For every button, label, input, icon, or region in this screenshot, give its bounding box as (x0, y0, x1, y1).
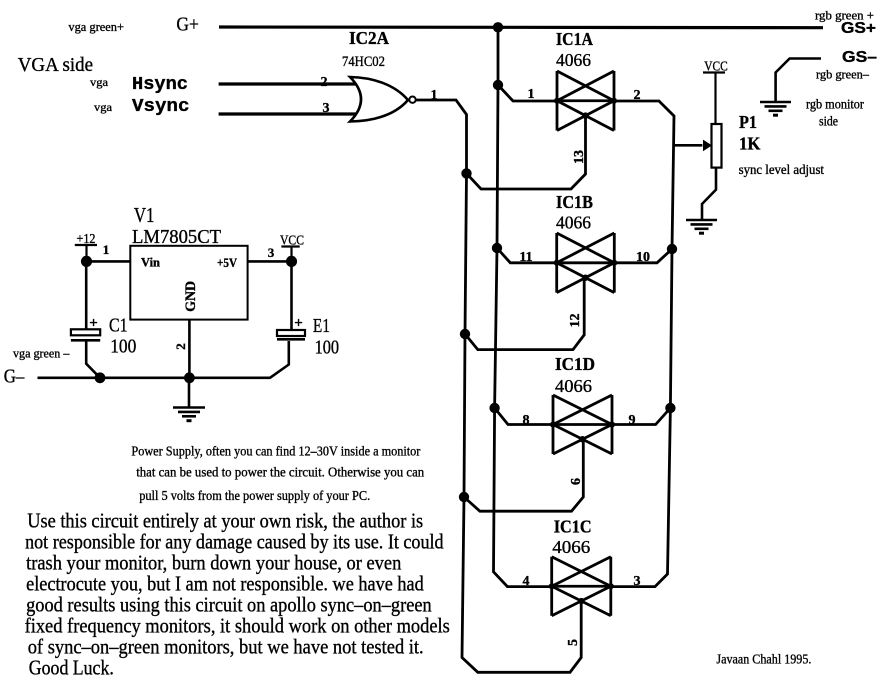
svg-text:vga green –: vga green – (13, 346, 70, 361)
wire G+ to GS+ top line (219, 25, 823, 29)
svg-text:IC1C: IC1C (554, 517, 592, 537)
svg-text:4: 4 (523, 574, 530, 589)
svg-text:VGA side: VGA side (18, 54, 93, 76)
svg-text:1K: 1K (739, 134, 761, 154)
wire V1 GND pin 2 (188, 320, 191, 407)
analog switch IC1C (4066 bowtie) (549, 557, 614, 616)
wire G+ vertical rail (494, 27, 552, 587)
svg-text:VCC: VCC (280, 234, 304, 249)
output bubble (409, 97, 415, 103)
junction dot pin1 V1 (81, 256, 92, 267)
svg-text:11: 11 (519, 250, 532, 265)
svg-text:2: 2 (321, 75, 328, 90)
svg-text:sync level adjust: sync level adjust (739, 162, 825, 177)
junction dot pin13 junction (461, 168, 471, 178)
wire to IC1B pin 12 (465, 278, 584, 350)
svg-text:10: 10 (636, 250, 650, 265)
analog switch IC1B (4066 bowtie) (554, 233, 618, 293)
svg-text:C1: C1 (109, 314, 128, 336)
wire P1 bottom to ground (702, 168, 716, 219)
wire IC2A output / control rail (416, 100, 581, 672)
svg-text:IC1A: IC1A (556, 29, 593, 49)
wire to IC1A pin 13 (467, 115, 586, 189)
svg-text:100: 100 (315, 338, 340, 359)
junction dot pin12 junction (460, 329, 470, 339)
svg-text:Good Luck.: Good Luck. (29, 656, 114, 680)
svg-text:side: side (819, 114, 838, 129)
ground symbol (GS- ground) (760, 102, 791, 115)
svg-text:IC1D: IC1D (555, 354, 595, 374)
svg-text:13: 13 (572, 150, 587, 164)
svg-text:+: + (294, 316, 303, 332)
svg-text:E1: E1 (313, 316, 330, 337)
junction dot pin9 junction (665, 403, 675, 413)
junction dot IC1B pin11 branch (492, 243, 502, 253)
svg-text:4066: 4066 (556, 213, 591, 233)
P1 wiper arrow (674, 144, 702, 147)
svg-text:+5V: +5V (217, 255, 238, 270)
svg-text:12: 12 (568, 314, 583, 328)
svg-text:1: 1 (103, 242, 110, 257)
svg-text:that can be used to power the: that can be used to power the circuit. O… (136, 466, 424, 481)
analog switch IC1A (4066 bowtie) (554, 71, 617, 131)
svg-text:9: 9 (629, 413, 636, 428)
svg-text:3: 3 (634, 574, 641, 589)
svg-text:+: + (89, 316, 98, 332)
svg-text:100: 100 (110, 337, 136, 358)
+12 supply symbol (75, 245, 97, 261)
svg-text:G+: G+ (176, 14, 199, 36)
wire to IC1A pin 1 (498, 85, 557, 101)
svg-text:6: 6 (569, 478, 584, 485)
junction dot G+ rail junction (493, 22, 503, 32)
svg-text:GS–: GS– (842, 49, 877, 66)
svg-text:vga: vga (94, 100, 113, 114)
svg-text:8: 8 (523, 413, 530, 428)
svg-text:GND: GND (183, 281, 199, 312)
capacitor E1 (290, 261, 293, 329)
wire GS- to ground (776, 59, 821, 102)
capacitor C1 (85, 261, 88, 329)
wire IC1D pin 9 (612, 408, 670, 425)
svg-text:rgb green–: rgb green– (816, 67, 869, 82)
wire Hsync input (219, 82, 357, 85)
svg-text:1: 1 (431, 88, 438, 103)
junction dot IC1A pin1 branch (493, 80, 503, 90)
ground symbol (below P1) (686, 220, 717, 233)
svg-text:4066: 4066 (555, 376, 592, 396)
svg-text:Vin: Vin (141, 255, 161, 270)
VCC power symbol above P1 (703, 73, 725, 125)
svg-text:Vsync: Vsync (132, 97, 190, 117)
svg-text:P1: P1 (739, 112, 757, 132)
svg-text:2: 2 (634, 88, 641, 103)
wire to IC1D pin 8 (495, 408, 553, 425)
wire Vsync input (219, 112, 357, 115)
junction dot G- / C1 junction (95, 372, 106, 383)
svg-text:4066: 4066 (556, 50, 591, 70)
svg-text:vga: vga (90, 75, 109, 89)
svg-text:LM7805CT: LM7805CT (132, 226, 221, 248)
svg-text:+12: +12 (77, 232, 96, 247)
wire to IC1B pin 11 (497, 248, 557, 263)
svg-text:IC1B: IC1B (556, 192, 593, 212)
svg-text:3: 3 (323, 101, 330, 116)
svg-text:2: 2 (173, 343, 188, 350)
wire IC1A pin 2 to output rail (611, 101, 674, 587)
junction dot GND junction (184, 372, 195, 383)
svg-text:IC2A: IC2A (349, 28, 389, 48)
analog switch IC1D (4066 bowtie) (550, 395, 615, 454)
svg-text:Hsync: Hsync (132, 75, 188, 95)
ground symbol (main ground) (173, 408, 205, 421)
wire G- bottom rail (38, 341, 289, 378)
junction dot IC1D pin8 branch (489, 403, 499, 413)
svg-text:V1: V1 (134, 203, 155, 227)
svg-text:GS+: GS+ (841, 20, 876, 37)
svg-text:vga green+: vga green+ (68, 19, 124, 34)
junction dot pin6 junction (459, 492, 469, 502)
svg-text:Javaan Chahl 1995.: Javaan Chahl 1995. (716, 653, 811, 668)
svg-text:rgb monitor: rgb monitor (806, 97, 864, 112)
gate IC2A 74HC02 NOR gate (350, 77, 416, 122)
svg-text:Power Supply, often you can fi: Power Supply, often you can find 12–30V … (131, 445, 420, 460)
wire pin 3 of V1 (248, 260, 292, 263)
VCC power symbol at V1 pin 3 (281, 247, 299, 262)
svg-text:VCC: VCC (704, 60, 728, 75)
wire IC1B pin 10 (614, 249, 672, 263)
potentiometer P1 body (712, 124, 722, 168)
svg-text:1: 1 (528, 87, 535, 102)
junction dot pin10 junction (667, 244, 677, 254)
svg-text:3: 3 (268, 245, 275, 260)
svg-text:pull 5 volts from the power su: pull 5 volts from the power supply of yo… (139, 489, 370, 504)
regulator V1 LM7805CT box (130, 246, 247, 320)
junction dot pin3 V1 (286, 256, 297, 267)
wire pin 1 of V1 (87, 260, 131, 263)
svg-text:74HC02: 74HC02 (342, 54, 385, 70)
svg-text:G–: G– (4, 366, 26, 388)
svg-text:4066: 4066 (552, 537, 590, 557)
svg-text:5: 5 (566, 639, 581, 646)
wire to IC1D pin 6 (464, 439, 583, 511)
